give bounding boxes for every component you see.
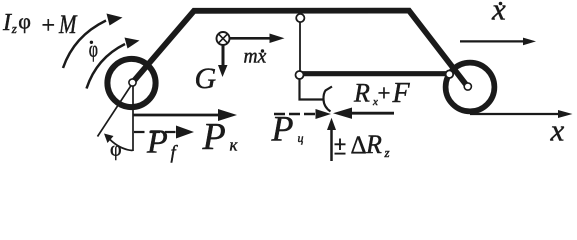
svg-text:φ: φ [89,37,98,63]
mid joint circle [296,71,304,79]
frame chassis polyline [133,11,468,87]
svg-text:к: к [230,136,239,155]
svg-text:P: P [146,124,168,161]
right joint circle [446,70,454,78]
delta Rz label [335,139,346,154]
top joint circle [296,14,304,22]
svg-text:Δ: Δ [351,132,367,159]
Pc dashed arrow [274,113,317,115]
svg-text:x: x [491,0,506,27]
phi angle arc [108,137,133,151]
G arrow [222,46,225,67]
left hub [129,79,136,86]
thin vertical link lower + arm [300,78,325,100]
svg-text:z: z [11,21,17,36]
left wheel tilted line [98,83,134,137]
svg-text:F: F [392,78,411,109]
svg-text:P: P [202,116,226,158]
svg-text:P: P [271,109,294,149]
tow hook [323,87,332,112]
x axis arrow [470,113,561,115]
x-dot velocity arrow [460,40,525,42]
svg-text:M: M [58,11,77,40]
left wheel vertical line [132,84,134,151]
Pk arrow [134,114,222,117]
svg-text:+: + [42,13,56,39]
svg-text:φ: φ [18,9,31,34]
svg-text:z: z [384,145,390,160]
Pf dashed arrow [134,131,177,133]
Rx+F arrow pointing left [352,112,394,115]
phi-dot curved arrow [87,44,126,89]
svg-text:φ: φ [110,139,122,161]
svg-text:x: x [550,113,565,148]
svg-text:R: R [353,79,370,108]
right wheel [446,63,495,112]
mx arrow [230,37,272,40]
svg-text:ц: ц [298,131,304,145]
right hub [464,83,471,90]
left wheel [107,59,155,107]
thin vertical link upper [299,20,301,72]
svg-text:R: R [365,130,382,159]
svg-text:I: I [2,10,12,36]
center of mass symbol [217,32,230,45]
svg-text:G: G [195,62,217,95]
delta Rz up arrow [330,129,333,161]
moment curved arrow upper [63,21,106,69]
drawbar link [302,71,450,76]
svg-text:+: + [378,81,391,106]
